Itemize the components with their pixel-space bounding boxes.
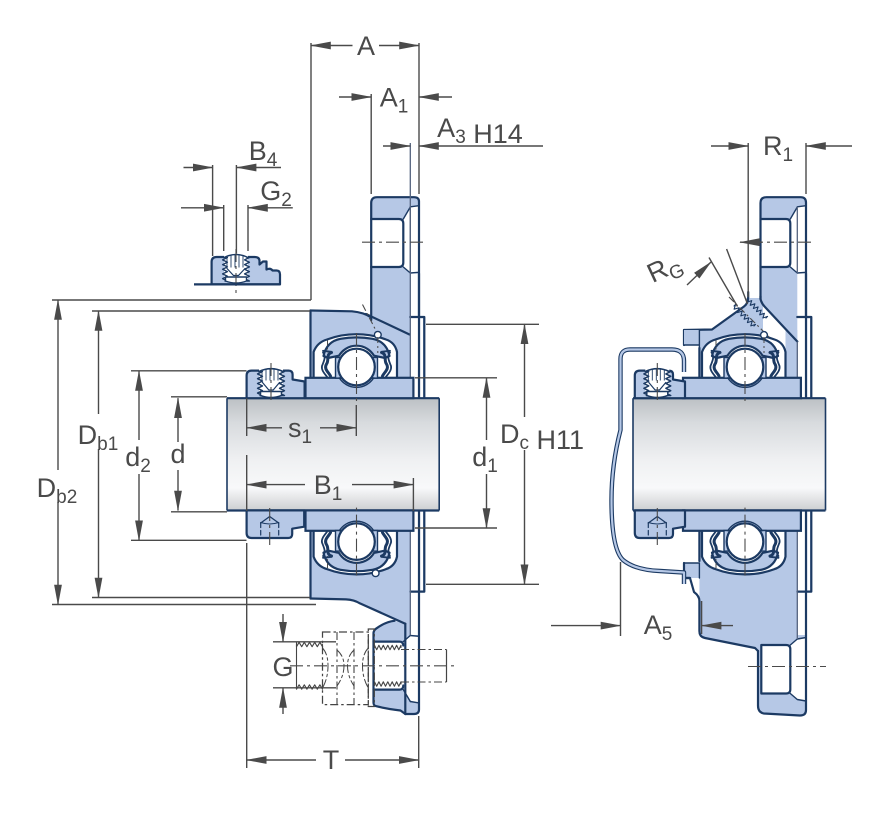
shaft (right view): [633, 398, 826, 510]
bolt hole (top flange, left view): [371, 219, 403, 267]
housing bottom outer edge (left view): [311, 599, 406, 624]
dimension d2: [138, 371, 140, 440]
bolt centreline: [290, 665, 455, 667]
bolt hole (top flange, right view): [761, 219, 791, 267]
housing flange body (right view, section between bolts): [684, 197, 811, 715]
svg-text:d: d: [170, 439, 185, 469]
white recess between web and plate (right view): [763, 305, 797, 520]
set screw centreline: [270, 363, 272, 404]
top bolt hole edges (left view): [371, 219, 403, 267]
dimension A5: [551, 625, 621, 627]
mounting bolt thread stub: [297, 642, 323, 646]
cover bead bottom (right view): [684, 563, 699, 578]
svg-text:A3 H14: A3 H14: [437, 113, 523, 149]
dimension B4: [184, 167, 213, 169]
svg-text:A: A: [357, 31, 375, 61]
housing outline strokes (right view): [684, 292, 748, 330]
dimension A1: [339, 96, 371, 98]
svg-text:G2: G2: [260, 176, 292, 211]
shaft (left view): [227, 398, 439, 510]
bearing bottom (right view): [710, 505, 779, 576]
top hole axis (right view): [750, 241, 814, 243]
dimension s1: [247, 427, 282, 429]
svg-text:G: G: [272, 652, 293, 682]
dimension d: [177, 398, 179, 442]
dimension R1: [711, 145, 748, 147]
set screw centreline: [656, 363, 658, 404]
cover retaining bead on housing (right view): [684, 330, 699, 345]
washer (phantom): [368, 629, 374, 707]
svg-text:A5: A5: [644, 610, 673, 645]
bearing cavity bottom (right view): [702, 530, 786, 574]
locking collar: [247, 371, 305, 399]
svg-text:Db2: Db2: [37, 473, 78, 508]
svg-text:Db1: Db1: [78, 420, 119, 455]
gusset slant edge top (left view): [366, 314, 410, 335]
dimension Dc H11: [524, 324, 526, 417]
bore land column bottom (left view): [397, 530, 410, 575]
detail set screw: [224, 254, 248, 281]
set screw (sectioned, hatched): [645, 368, 669, 395]
bottom bolt hole edges (left view): [374, 642, 404, 646]
detail shaft line: [194, 283, 280, 285]
bolt hole (bottom flange, left view): [374, 642, 404, 690]
housing left face (left view): [309, 311, 311, 379]
bolt shank in hole (threads): [375, 645, 402, 649]
housing outline strokes (left view): [311, 311, 372, 318]
dimension d1: [486, 378, 488, 440]
bearing bottom (left view): [322, 505, 391, 576]
svg-text:Dc H11: Dc H11: [500, 419, 584, 455]
locking collar: [635, 371, 685, 399]
dimension G2: [181, 207, 224, 209]
bearing top (right view): [710, 333, 779, 404]
spigot strip inner (right view): [807, 318, 810, 590]
detail screw centreline: [235, 249, 237, 297]
svg-text:T: T: [323, 745, 340, 775]
locking collar: [635, 510, 685, 538]
dimension G: [282, 614, 284, 642]
pressed steel end cover (right view): [612, 350, 685, 585]
inner ring bottom (right view): [683, 510, 801, 530]
bore land column top (right view): [786, 330, 798, 379]
bottom hole axis (right view): [748, 666, 826, 668]
top hole axis (left view): [362, 241, 427, 243]
detail view: collar with set screw (B4/G2): [212, 257, 280, 284]
housing bore arc bottom (right view): [702, 530, 786, 574]
dimension A: [311, 45, 353, 47]
grease hole axis (left view): [363, 305, 378, 334]
inner ring top (left view): [306, 378, 414, 398]
hex nut (phantom): [323, 632, 369, 705]
plate front-face line (right view): [796, 342, 798, 399]
dimension B1: [247, 484, 305, 486]
web front face / R1 extension (right view): [747, 143, 749, 297]
locking collar: [247, 510, 305, 538]
inner ring bottom (left view): [306, 510, 414, 530]
dimension Db2: [57, 300, 59, 470]
inner ring top (right view): [683, 378, 801, 398]
set screw (sectioned, hatched): [259, 368, 283, 395]
back recess strip (right view): [797, 274, 806, 636]
bolt boss (left view bottom flange): [374, 621, 406, 714]
bearing cavity bottom (left view): [314, 530, 397, 574]
spigot strip inner (left view): [420, 318, 423, 590]
bottom bolt hole edges (right view): [761, 645, 790, 694]
bearing cavity top (right view): [702, 334, 786, 378]
housing bore arc bottom (left view): [314, 530, 397, 574]
flange plate front-face line (left view): [409, 143, 411, 398]
bolt boss face (left view bottom): [374, 621, 406, 714]
svg-text:R1: R1: [763, 131, 793, 166]
svg-text:RG: RG: [642, 247, 688, 293]
top bolt hole edges (right view): [761, 219, 791, 267]
svg-text:B4: B4: [249, 136, 278, 171]
set screw (hidden, bottom): [261, 517, 279, 524]
dimension A3 H14: [383, 145, 410, 147]
bearing top (left view): [322, 333, 391, 404]
bore land column bottom (right view): [786, 530, 798, 575]
dimension Db1: [98, 311, 100, 414]
flange gusset (right view): [761, 293, 798, 398]
bearing cavity top (left view): [314, 334, 397, 378]
bore land column top (left view): [397, 330, 410, 379]
inner gusset slant (right view): [761, 296, 798, 342]
set screw (hidden, bottom): [648, 517, 666, 524]
housing flange body (left view, cast housing section): [311, 197, 425, 714]
svg-text:d2: d2: [125, 442, 151, 477]
dimension T: [247, 759, 316, 761]
spigot (centering pilot, left view): [410, 317, 424, 592]
grease hole bump (left view bottom): [372, 570, 379, 577]
housing bore arc top (left view): [314, 334, 397, 378]
back recess strip behind flange plate (left view): [410, 274, 419, 636]
svg-text:A1: A1: [380, 83, 409, 118]
threaded grease hole (right view, RG): [729, 297, 769, 337]
svg-text:d1: d1: [472, 442, 498, 477]
housing bore arc top (right view): [702, 334, 786, 378]
bolt hole (bottom flange, right view): [761, 645, 790, 694]
